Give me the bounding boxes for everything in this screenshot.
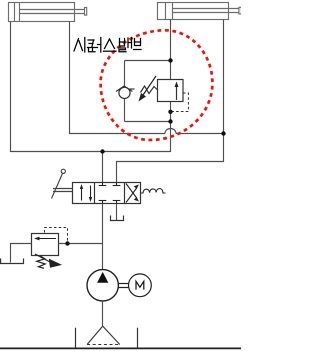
junction dot: port A tee <box>100 149 104 153</box>
DV1 return spring <box>141 189 166 193</box>
glyph 시 <box>74 39 79 52</box>
sequence valve adjust arrow head <box>139 93 147 102</box>
red highlight oval <box>101 30 213 140</box>
sequence valve internal arrow <box>176 84 178 100</box>
relief valve internal arrow <box>38 238 57 240</box>
junction dot: top rail <box>168 58 172 62</box>
cylinder CYL2 rod <box>173 8 240 10</box>
cylinder CYL2 rod end plate <box>239 7 242 14</box>
wire: check valve branch lower <box>124 99 126 122</box>
wire: check valve branch upper <box>124 61 126 87</box>
sequence valve internal arrow head <box>175 82 179 88</box>
junction dot: bottom rail <box>168 119 172 123</box>
tank T3 (relief drain) <box>1 259 24 264</box>
tank T1 floor line <box>0 347 241 349</box>
wire: mid rail left of hop <box>70 133 166 135</box>
DV1 cross arrow head upper <box>134 185 139 189</box>
sequence valve spring <box>141 86 158 94</box>
glyph 밸 <box>120 39 125 47</box>
cylinder CYL2 piston <box>165 3 167 20</box>
wire: junction down then left to valve port B <box>117 134 224 183</box>
wire: seq valve square top stub <box>170 61 172 80</box>
glyph 퀀 <box>88 39 94 41</box>
wire: valve port P down to pump <box>102 204 104 270</box>
wire: mid rail right of hop <box>176 133 224 135</box>
DV1 centre box blocked ports (T symbols) <box>99 183 121 204</box>
motor M1 letter M <box>136 281 144 289</box>
wire: CYL2 cap port down to seq-valve top rail <box>170 20 172 61</box>
wire: valve port A up to lower rail <box>102 152 104 183</box>
cylinder CYL1 (left, horizontal) body <box>9 3 87 22</box>
tank T2 (valve drain) <box>111 216 124 221</box>
DV1 left box up-arrow head <box>80 184 83 189</box>
wire: seq valve bottom rail <box>125 121 171 123</box>
wire: valve port T down to tank <box>116 204 118 221</box>
pump P1 <box>87 270 118 301</box>
cylinder CYL2 (right, horizontal) body <box>158 3 242 20</box>
relief valve pilot (dashed) <box>45 228 68 243</box>
wire: relief valve outlet to P line <box>59 243 103 245</box>
relief valve arrow head <box>34 237 40 241</box>
cylinder CYL1 piston <box>14 3 16 22</box>
strainer S1 <box>87 326 120 344</box>
check valve CV1 <box>116 86 132 99</box>
relief valve RV1 body <box>32 234 59 256</box>
wire: CYL1 rod port down <box>69 22 71 135</box>
junction dot: pilot tap <box>168 110 172 114</box>
wire hop over riser <box>165 129 176 134</box>
motor shaft <box>118 283 128 285</box>
DV1 left box arrows <box>82 186 91 201</box>
DV1 cross arrow head lower <box>134 197 139 201</box>
DV1 left box down-arrow head <box>89 197 92 202</box>
sequence valve body <box>158 80 184 102</box>
sequence valve adjust arrow <box>142 76 156 97</box>
label text 시퀀스 밸브 (drawn strokes) <box>74 38 141 53</box>
relief valve adjust arrow head <box>49 259 62 268</box>
wire: seq valve top rail <box>125 60 171 62</box>
DV1 lever operator <box>52 169 73 198</box>
relief valve spring <box>37 256 45 268</box>
wire: pump suction <box>102 301 104 326</box>
glyph 브 <box>135 39 141 46</box>
DV1 right box crossed arrows <box>126 184 137 203</box>
sequence valve spring tail <box>130 88 135 90</box>
sequence valve pilot line (dashed) <box>171 93 188 112</box>
motor M1 <box>129 274 152 297</box>
wire: sequence valve riser <box>170 102 172 153</box>
junction dot: relief pilot tap <box>65 241 69 245</box>
cylinder CYL1 rod end plate <box>85 8 87 16</box>
cylinder CYL1 rod <box>20 9 86 11</box>
pump P1 flow triangle <box>97 272 108 283</box>
wire: relief valve to drain tank <box>11 244 32 263</box>
wire: lower rail to sequence valve riser <box>11 151 171 153</box>
relief valve adjust arrow <box>35 254 50 262</box>
glyph 스 <box>105 39 110 49</box>
junction dot: CYL2 rod tee <box>221 131 225 135</box>
tank T1 (main reservoir) walls <box>75 328 77 349</box>
wire: CYL1 cap port down <box>10 22 12 153</box>
wire: CYL2 rod port down to junction <box>223 20 225 134</box>
directional valve DV1 body <box>73 183 141 204</box>
